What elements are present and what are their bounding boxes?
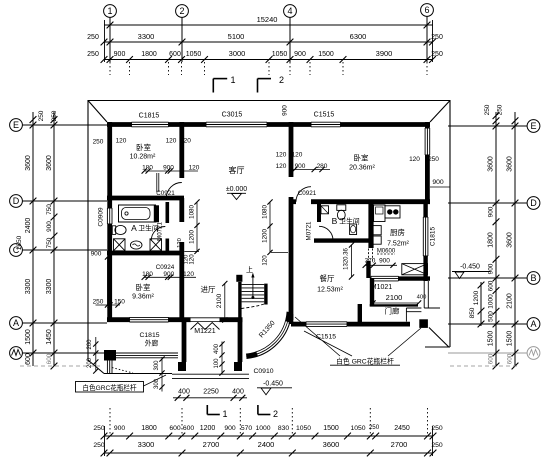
section mark 1 top — [213, 78, 227, 80]
svg-text:3300: 3300 — [46, 279, 53, 295]
window C1515 south dining — [306, 322, 347, 327]
svg-text:1200: 1200 — [189, 230, 196, 244]
svg-text:卫生间: 卫生间 — [339, 217, 360, 226]
svg-text:C1815: C1815 — [429, 227, 436, 247]
svg-text:D: D — [530, 198, 537, 208]
walls — [107, 122, 430, 362]
svg-text:3600: 3600 — [507, 232, 514, 248]
eaves corner diagonal bottom-left — [88, 360, 104, 374]
svg-text:A: A — [13, 318, 19, 328]
svg-text:3600: 3600 — [488, 156, 495, 172]
svg-text:250: 250 — [484, 104, 491, 115]
svg-text:卧室: 卧室 — [136, 142, 151, 152]
svg-text:250: 250 — [431, 425, 443, 432]
svg-text:M1221: M1221 — [194, 328, 216, 335]
eaves corner diagonal bottom-right — [429, 328, 449, 348]
men-lang 2100 dim — [373, 302, 419, 304]
wall-face extension line right top — [432, 20, 434, 62]
svg-text:900: 900 — [163, 165, 174, 172]
svg-text:C1815: C1815 — [139, 113, 160, 120]
svg-text:10.28m²: 10.28m² — [130, 154, 156, 161]
svg-text:3600: 3600 — [25, 155, 32, 171]
svg-text:15240: 15240 — [257, 15, 278, 24]
column left terrace — [104, 350, 116, 361]
top fine dim line — [104, 59, 433, 61]
svg-text:200: 200 — [87, 357, 93, 368]
left dashed bottom line — [20, 365, 100, 367]
bottom dimension group — [93, 405, 443, 456]
axis circle 4 — [284, 5, 297, 18]
svg-text:200: 200 — [87, 339, 93, 350]
door M0921 bedroom1 arc — [166, 183, 182, 199]
svg-text:500: 500 — [488, 311, 495, 322]
svg-text:120: 120 — [183, 271, 194, 278]
eaves corner diagonal top-right — [430, 101, 450, 123]
axis5 wall below kitchen — [370, 278, 374, 306]
west wall segments — [107, 122, 112, 208]
bedroom2 dim line — [292, 169, 330, 171]
axis circle 6 — [421, 4, 434, 17]
svg-text:120: 120 — [116, 138, 127, 145]
svg-text:900: 900 — [488, 206, 495, 217]
window C0909 west — [107, 208, 112, 224]
axis circle A left — [10, 317, 23, 330]
svg-text:20.36m²: 20.36m² — [349, 165, 375, 172]
toilet B — [337, 205, 346, 211]
porch and bay — [104, 281, 440, 379]
axis circle 2 — [176, 5, 189, 18]
svg-text:2100: 2100 — [386, 293, 403, 302]
svg-text:白色GRC花瓶栏杆: 白色GRC花瓶栏杆 — [82, 383, 137, 392]
svg-text:250: 250 — [93, 425, 105, 432]
wall pier beside tub — [154, 205, 159, 222]
svg-text:1080: 1080 — [189, 205, 196, 219]
svg-text:1500: 1500 — [25, 329, 32, 345]
svg-text:-0.450: -0.450 — [263, 381, 283, 388]
extension dotted lines — [109, 62, 111, 75]
svg-text:6: 6 — [424, 5, 429, 15]
svg-text:900: 900 — [163, 271, 174, 278]
svg-text:600: 600 — [183, 425, 195, 432]
svg-text:卧室: 卧室 — [354, 153, 369, 163]
svg-text:300: 300 — [154, 378, 160, 389]
svg-text:900: 900 — [294, 51, 306, 58]
svg-text:120: 120 — [276, 152, 287, 159]
svg-text:B: B — [332, 216, 338, 226]
svg-text:2: 2 — [273, 409, 278, 419]
svg-text:400: 400 — [178, 389, 190, 396]
column men-lang — [419, 319, 428, 328]
svg-text:400: 400 — [417, 295, 427, 301]
svg-text:1500: 1500 — [488, 331, 495, 347]
stair — [236, 273, 266, 321]
living room vertical dim left — [196, 202, 198, 252]
svg-text:250: 250 — [431, 442, 443, 449]
svg-text:2250: 2250 — [203, 389, 219, 396]
overall dim line 15240 — [104, 24, 433, 26]
kitchen counter sink — [374, 205, 385, 222]
bay wall stub upper — [288, 312, 290, 322]
svg-text:830: 830 — [278, 425, 290, 432]
svg-text:250: 250 — [93, 299, 104, 306]
svg-text:1: 1 — [107, 6, 112, 16]
svg-text:2: 2 — [279, 75, 284, 85]
stair up arrow — [252, 275, 254, 298]
grc label left box — [76, 382, 144, 393]
column porch left — [178, 362, 186, 371]
svg-text:750: 750 — [46, 237, 53, 248]
kitchen south wall — [399, 276, 431, 280]
terrace railing lines — [116, 353, 178, 358]
svg-text:2: 2 — [179, 6, 184, 16]
svg-text:900: 900 — [432, 179, 444, 186]
svg-text:2450: 2450 — [394, 425, 410, 432]
stair treads — [242, 283, 265, 285]
svg-text:1050: 1050 — [296, 425, 311, 432]
window C3015 north — [206, 122, 267, 127]
svg-text:C0921: C0921 — [298, 190, 317, 197]
north wall segments — [107, 122, 132, 127]
svg-text:120: 120 — [262, 255, 269, 266]
svg-text:A: A — [530, 319, 536, 329]
svg-text:卧室: 卧室 — [136, 282, 151, 292]
svg-text:厨房: 厨房 — [390, 227, 405, 237]
kitchen cabinets — [373, 226, 381, 235]
svg-text:上: 上 — [246, 265, 253, 274]
bay window outer arc — [247, 312, 292, 359]
svg-text:1000: 1000 — [488, 294, 495, 309]
bedroom2 south wall — [291, 199, 296, 204]
column porch right — [234, 362, 242, 371]
windows — [107, 122, 429, 326]
svg-text:1000: 1000 — [255, 425, 270, 432]
svg-text:外廊: 外廊 — [145, 339, 159, 348]
wall-face extension line left top — [104, 20, 106, 62]
svg-text:600: 600 — [169, 425, 181, 432]
stair break dashed curve — [242, 304, 266, 309]
wall-face extension line right bottom — [432, 426, 434, 456]
svg-text:进厅: 进厅 — [201, 285, 216, 294]
svg-text:570: 570 — [241, 425, 253, 432]
svg-text:2700: 2700 — [391, 440, 408, 449]
bathroomA lobby wall — [166, 202, 170, 251]
svg-text:600: 600 — [488, 353, 495, 364]
svg-text:600: 600 — [25, 353, 32, 365]
door M0721 bathroomA arc — [151, 227, 165, 241]
porch side wall right — [238, 321, 243, 362]
right dim line outer — [514, 112, 516, 366]
washbasin A — [115, 225, 126, 234]
door M0721 bathroomB arc — [319, 226, 333, 240]
svg-text:12.53m²: 12.53m² — [317, 287, 343, 294]
svg-text:120: 120 — [189, 165, 200, 172]
right dim line mid — [495, 112, 497, 366]
section mark 2 top — [258, 78, 272, 80]
kitchen stove — [385, 206, 400, 218]
svg-text:3300: 3300 — [25, 279, 32, 295]
axis5 wall kitchen-west — [366, 261, 370, 278]
bathroomA south wall — [107, 251, 184, 256]
dining vertical dim 1320 — [351, 245, 353, 277]
bathtub A — [119, 205, 156, 222]
left dimension group — [10, 110, 107, 369]
svg-text:D: D — [13, 196, 20, 206]
svg-text:180: 180 — [142, 271, 153, 278]
floor drain bathB — [321, 206, 329, 214]
svg-text:E: E — [13, 120, 19, 130]
svg-text:250: 250 — [87, 34, 99, 41]
shower box left — [114, 239, 126, 251]
svg-text:250: 250 — [431, 51, 443, 58]
svg-text:-0.450: -0.450 — [460, 264, 480, 271]
stair newel post — [236, 275, 242, 282]
kitchen dim 370 900 — [365, 264, 397, 266]
axis 6 line — [426, 16, 428, 62]
svg-text:250: 250 — [93, 139, 104, 146]
svg-text:1080: 1080 — [262, 205, 269, 219]
svg-text:M0721: M0721 — [156, 221, 163, 240]
axis circle 1 — [104, 5, 117, 18]
svg-text:2100: 2100 — [216, 293, 223, 308]
bay window inner arcs — [246, 312, 287, 354]
svg-text:120: 120 — [177, 238, 183, 248]
svg-text:门廊: 门廊 — [385, 306, 400, 316]
svg-text:2400: 2400 — [25, 218, 32, 234]
axis 4 line — [289, 17, 291, 62]
svg-text:2100: 2100 — [507, 293, 514, 309]
svg-text:280: 280 — [317, 163, 328, 170]
terrace railing vertical lines — [107, 361, 112, 374]
stair stringer right — [264, 284, 267, 305]
svg-text:3600: 3600 — [46, 155, 53, 171]
axis circle C left — [10, 244, 23, 257]
svg-text:C0909: C0909 — [98, 207, 105, 227]
svg-text:900: 900 — [91, 251, 102, 258]
svg-text:3300: 3300 — [138, 440, 155, 449]
bay wall stub lower — [246, 354, 257, 356]
axis circle E left — [10, 119, 23, 132]
svg-text:750: 750 — [46, 204, 53, 215]
window east bedroom2 — [425, 128, 430, 155]
svg-text:1: 1 — [230, 75, 235, 85]
right axis lines — [448, 125, 527, 127]
axis circle D left — [10, 195, 23, 208]
eaves bottom-left edge — [104, 373, 172, 375]
svg-text:±0.000: ±0.000 — [226, 186, 247, 193]
leader lines and GRC notes — [76, 317, 422, 392]
svg-text:900: 900 — [46, 221, 53, 232]
south wall segments — [107, 317, 130, 322]
eaves outline — [88, 101, 450, 374]
svg-text:M1021: M1021 — [371, 284, 393, 291]
top dimension group — [87, 4, 443, 93]
svg-text:2700: 2700 — [203, 440, 220, 449]
steps right of men-lang — [406, 308, 421, 322]
svg-text:1500: 1500 — [507, 331, 514, 347]
porch-men-lang partition stub — [358, 304, 362, 326]
svg-text:1200: 1200 — [200, 425, 216, 432]
svg-text:1: 1 — [222, 409, 227, 419]
svg-text:6300: 6300 — [350, 32, 367, 41]
svg-text:白色 GRC花瓶栏杆: 白色 GRC花瓶栏杆 — [336, 356, 394, 365]
east wall upper segments — [425, 122, 430, 128]
svg-text:900: 900 — [114, 51, 126, 58]
right dimension group — [448, 104, 540, 369]
svg-text:150: 150 — [114, 299, 125, 306]
interior wall axis2 segments — [179, 122, 184, 178]
svg-text:1050: 1050 — [350, 425, 365, 432]
axis circle A right — [527, 318, 540, 331]
svg-text:C1815: C1815 — [139, 332, 159, 339]
eaves bottom-right edge — [425, 346, 450, 348]
grc leaders right — [295, 317, 421, 356]
svg-text:1500: 1500 — [323, 425, 339, 432]
svg-text:120: 120 — [276, 163, 287, 170]
svg-text:250: 250 — [38, 110, 45, 121]
axis 2 line — [181, 17, 183, 62]
porch floor lines — [172, 374, 249, 378]
svg-text:1800: 1800 — [488, 232, 495, 248]
svg-text:180: 180 — [142, 165, 153, 172]
stair stringer left — [238, 282, 241, 321]
door M0921 bedroom2 arc — [296, 187, 311, 202]
svg-text:1320.36: 1320.36 — [344, 248, 350, 270]
svg-text:E: E — [530, 121, 536, 131]
bedroom1 dim line — [144, 170, 198, 172]
svg-text:900: 900 — [488, 263, 495, 274]
bedroom1 south wall — [107, 196, 184, 201]
bedroom3 dim line — [144, 276, 196, 278]
terrace dotted diagonal — [112, 368, 133, 374]
svg-text:1200: 1200 — [262, 229, 269, 243]
eaves corner diagonal top-left — [88, 101, 107, 123]
svg-text:400: 400 — [232, 389, 244, 396]
svg-text:370: 370 — [365, 258, 376, 265]
svg-text:3900: 3900 — [376, 49, 393, 58]
dining south wall segments — [291, 322, 306, 327]
dim line 3300/5100/6300 — [104, 41, 433, 43]
bottom coarse dim line — [104, 452, 433, 454]
porch dim 400 100 — [221, 342, 223, 375]
svg-text:C0910: C0910 — [253, 368, 273, 375]
svg-text:餐厅: 餐厅 — [320, 274, 335, 283]
doors — [151, 183, 372, 330]
left vertical dim 200 200 — [95, 337, 97, 372]
section mark 2 bottom — [257, 405, 259, 415]
bay stub join to wall — [289, 314, 294, 324]
svg-text:600: 600 — [488, 280, 495, 291]
laundry oval — [130, 241, 142, 249]
svg-text:1200: 1200 — [473, 290, 480, 305]
svg-text:M0721: M0721 — [305, 221, 312, 240]
axis circle M right — [527, 347, 540, 360]
svg-text:120: 120 — [166, 138, 177, 145]
svg-text:250: 250 — [428, 156, 439, 163]
right dim line inner partial — [480, 282, 482, 326]
svg-text:1650: 1650 — [16, 235, 23, 250]
svg-text:2400: 2400 — [258, 440, 275, 449]
axis 1 line — [109, 17, 111, 62]
svg-text:4: 4 — [287, 6, 292, 16]
svg-text:B: B — [530, 273, 536, 283]
axis5 wall upper — [368, 204, 373, 248]
svg-text:A: A — [131, 223, 137, 233]
svg-text:250: 250 — [51, 110, 58, 121]
svg-text:C0921: C0921 — [156, 190, 175, 197]
svg-text:120: 120 — [292, 152, 303, 159]
svg-text:120: 120 — [189, 254, 196, 265]
svg-text:900: 900 — [114, 425, 126, 432]
svg-text:250: 250 — [497, 104, 504, 115]
axis circle D right — [527, 197, 540, 210]
porch dim 400 2250 400 — [173, 397, 247, 399]
svg-text:900: 900 — [379, 258, 390, 265]
porch side wall left — [182, 321, 187, 362]
left vertical dim 900-250-150 — [107, 257, 109, 305]
washbasin B — [350, 224, 357, 235]
right dashed bottom line — [450, 365, 520, 367]
axis circle E right — [527, 120, 540, 133]
window C1515 north — [311, 122, 341, 127]
bottom fine dim line — [104, 435, 433, 437]
kitchen counter with X — [402, 264, 428, 275]
svg-text:1050: 1050 — [186, 51, 202, 58]
bottom extension dotted lines — [109, 408, 111, 434]
svg-text:600: 600 — [169, 51, 181, 58]
svg-text:250: 250 — [93, 442, 105, 449]
door M0600 dashed kitchen — [369, 249, 373, 261]
left dim line inner — [32, 112, 34, 366]
door M1221 entry symbol — [191, 323, 220, 330]
svg-text:3000: 3000 — [229, 49, 246, 58]
svg-text:C1515: C1515 — [314, 112, 335, 119]
svg-text:120: 120 — [184, 255, 190, 265]
svg-text:900: 900 — [224, 425, 236, 432]
svg-text:400: 400 — [214, 343, 220, 354]
porch dim 300 300 — [161, 357, 163, 392]
section mark 1 bottom — [206, 405, 208, 415]
svg-text:C3015: C3015 — [222, 112, 243, 119]
window kitchen south — [371, 276, 399, 281]
svg-text:3600: 3600 — [507, 156, 514, 172]
grc leader left — [144, 375, 167, 386]
svg-text:250: 250 — [87, 51, 99, 58]
svg-text:1800: 1800 — [141, 425, 157, 432]
svg-text:1450: 1450 — [46, 329, 53, 345]
interior dimension lines — [93, 167, 421, 401]
svg-text:9.36m²: 9.36m² — [132, 294, 154, 301]
svg-text:900: 900 — [282, 105, 289, 116]
svg-text:850: 850 — [469, 307, 476, 318]
svg-text:5100: 5100 — [228, 32, 245, 41]
left axis lines — [22, 124, 107, 126]
hall 2100 dim — [224, 284, 226, 321]
svg-text:C1515: C1515 — [316, 334, 336, 341]
axis circle B right — [527, 272, 540, 285]
window C1815 east kitchen — [423, 217, 428, 256]
men-lang north wall — [370, 304, 418, 306]
window C1815 north — [132, 122, 169, 127]
svg-text:300: 300 — [154, 360, 160, 371]
bathroomB south wall — [314, 238, 371, 242]
left dim line outer — [53, 112, 55, 366]
window C1815 south bedroom3 — [130, 317, 169, 322]
svg-text:1800: 1800 — [141, 51, 157, 58]
svg-text:900: 900 — [295, 163, 306, 170]
svg-text:3300: 3300 — [138, 32, 155, 41]
svg-text:120: 120 — [180, 138, 191, 145]
living room vertical dim right — [269, 202, 271, 253]
